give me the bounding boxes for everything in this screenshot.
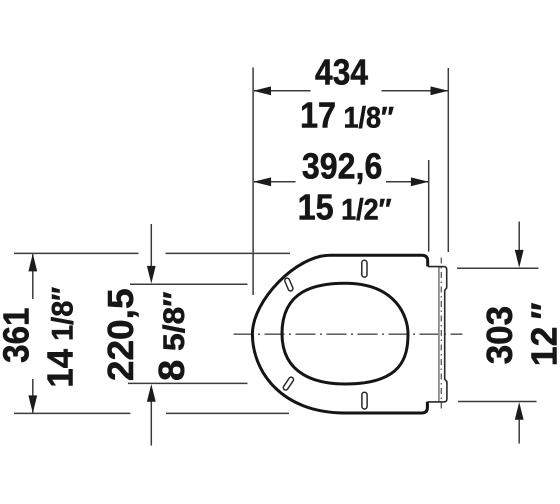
dimension line 392,6 — [254, 181, 296, 183]
svg-text:361: 361 — [0, 308, 37, 363]
arrowhead 303 up (tip at hinge bottom line) — [515, 402, 524, 420]
seat outer outline (thick) — [252, 255, 427, 413]
arrowhead 361 down — [28, 395, 37, 413]
extension line right of 434 (plate right edge, x=448) — [447, 68, 449, 252]
extension line top of 303 (hinge top, y=268.2) — [457, 267, 539, 269]
arrowhead 220,5 up (tip at opening bottom) — [147, 384, 156, 402]
svg-text:303: 303 — [480, 306, 521, 364]
centerline horizontal (dash-dot through seat) — [234, 333, 463, 335]
extension line bottom of 220,5 (opening bottom, y=383.4) — [128, 382, 248, 384]
arrowhead 361 up — [28, 254, 37, 272]
dimension line 434 — [254, 90, 311, 92]
dimension line 361 (vertical, left) — [32, 254, 34, 299]
dimension line 303 lower stem — [518, 420, 520, 444]
bumper slot top-left (tilted) — [284, 277, 294, 291]
seat inner opening (thick oval) — [282, 283, 408, 384]
arrowhead 392,6 left — [253, 177, 271, 186]
extension line left (seat left edge, x=253) — [252, 68, 254, 296]
bumper slot bottom-center — [362, 392, 367, 409]
arrowhead 392,6 right — [411, 177, 429, 186]
svg-text:220,5: 220,5 — [100, 288, 140, 381]
svg-text:8 5/8″: 8 5/8″ — [151, 291, 192, 381]
svg-text:17 1/8″: 17 1/8″ — [300, 96, 394, 136]
arrowhead 434 left — [253, 86, 271, 95]
svg-text:392,6: 392,6 — [302, 147, 382, 187]
svg-text:14 1/8″: 14 1/8″ — [41, 287, 81, 388]
extension line top of 220,5 (opening top, y=284.2) — [130, 283, 248, 285]
dimension line 220,5 upper stem — [150, 224, 152, 267]
svg-text:434: 434 — [315, 53, 368, 93]
bumper slot top-center — [362, 260, 367, 277]
dimension line 303 upper stem — [518, 222, 520, 251]
bumper slot bottom-left (tilted) — [282, 376, 294, 391]
hinge plate left edge (grey) — [438, 267, 440, 402]
arrowhead 434 right — [431, 86, 449, 95]
extension line bottom of 361 (seat bottom edge, y=413.4) — [14, 412, 130, 414]
hinge bolt centerline (vertical dash-dot) — [440, 258, 442, 410]
hinge plate right edge with steps (thin) — [427, 267, 447, 402]
svg-text:12 ″: 12 ″ — [524, 302, 560, 366]
arrowhead 220,5 down (tip at opening top) — [147, 266, 156, 284]
dimension line 220,5 lower stem — [150, 402, 152, 446]
extension line bottom of 303 (hinge bottom, y=401.5) — [458, 401, 537, 403]
extension line right of 392,6 (seat back edge, x=428.7) — [428, 160, 430, 252]
extension line top of 361 (seat top edge, y=253.4) — [14, 252, 139, 254]
arrowhead 303 down (tip at hinge top line) — [515, 250, 524, 268]
svg-text:15 1/2″: 15 1/2″ — [298, 188, 392, 228]
